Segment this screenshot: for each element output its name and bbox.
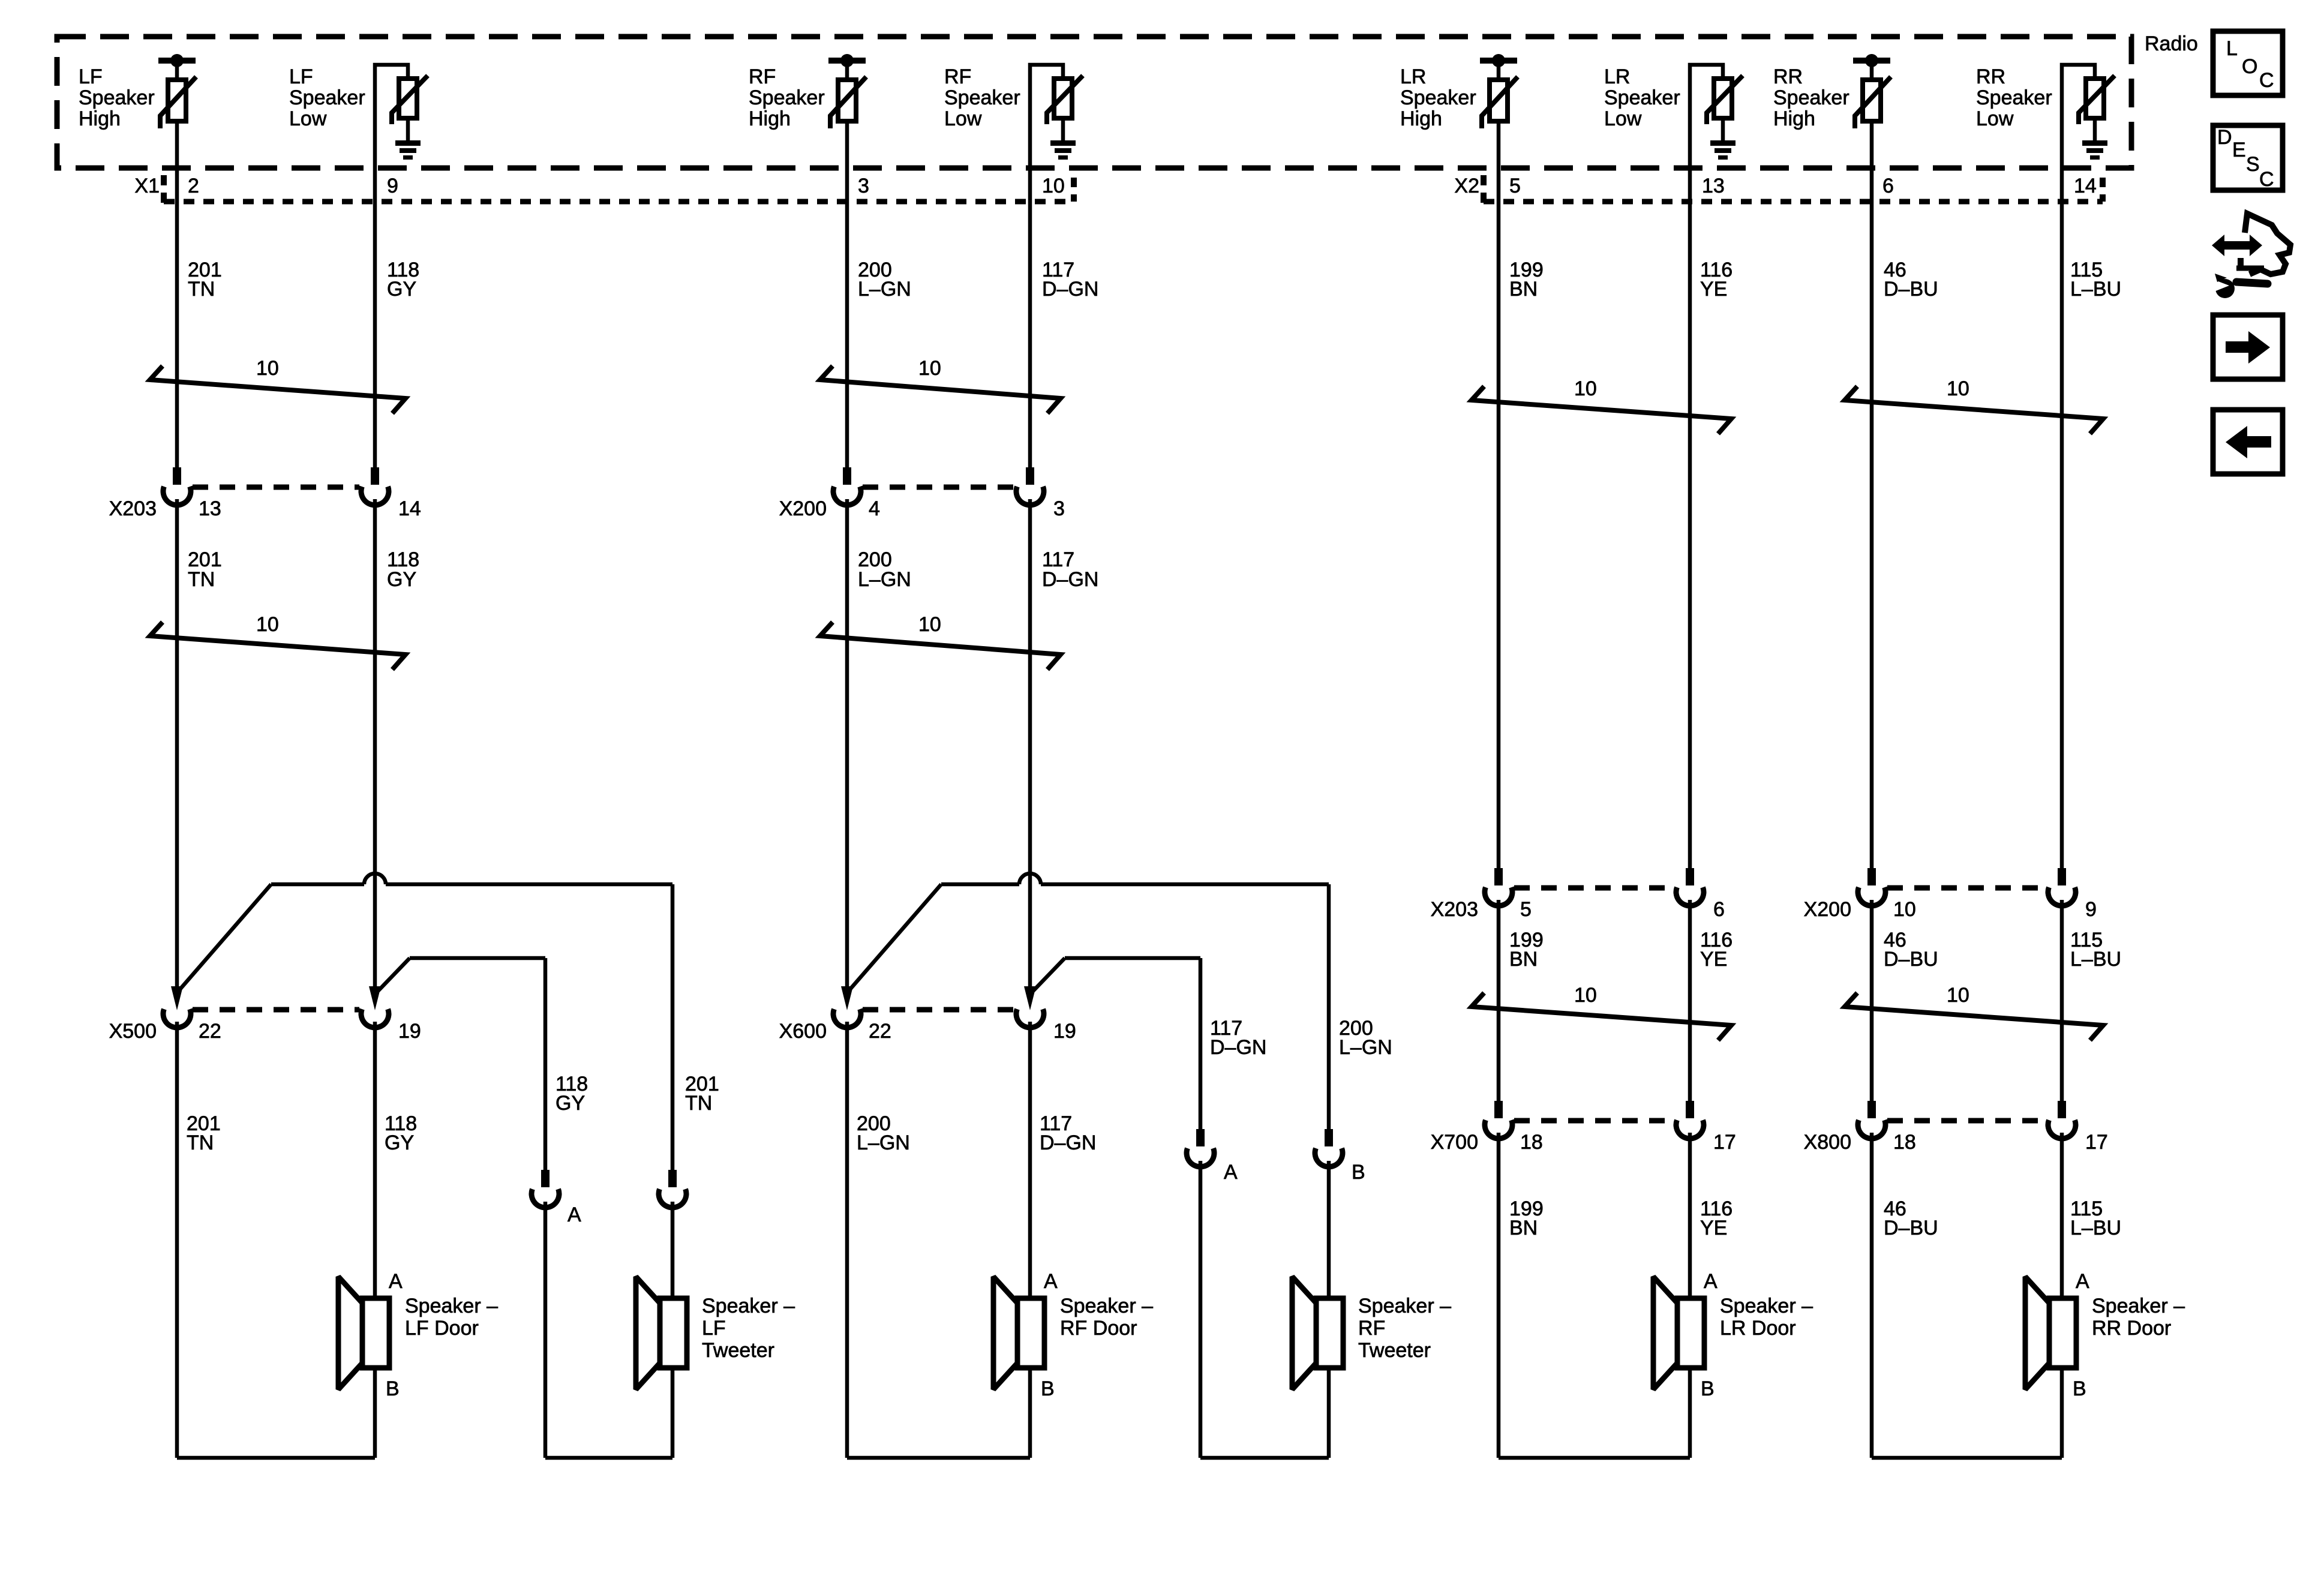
wire LR door B terminal to loop xyxy=(1688,1368,1692,1458)
svg-text:D: D xyxy=(2217,126,2232,149)
connector X1 right dotted stub xyxy=(1071,178,1077,202)
wire RF door B terminal to loop xyxy=(1028,1368,1032,1458)
svg-text:B: B xyxy=(1352,1161,1365,1184)
svg-text:X200: X200 xyxy=(779,497,827,520)
svg-text:6: 6 xyxy=(1882,175,1894,197)
wire RR low X200 to X800 xyxy=(2060,900,2064,1101)
wire LF tweeter return horizontal from X500 pin 19 xyxy=(410,956,545,960)
svg-text:Speaker –: Speaker – xyxy=(702,1295,795,1317)
svg-text:10: 10 xyxy=(256,357,279,380)
RF Speaker High label xyxy=(749,65,825,130)
RF tweeter splice terminal B (200 L-GN) xyxy=(1315,1129,1343,1167)
inline connector X203 pin 13 terminal (LF high) xyxy=(163,467,191,505)
wire RF tweeter bottom loop xyxy=(1200,1456,1329,1460)
svg-text:10: 10 xyxy=(1947,377,1969,400)
svg-text:Speaker: Speaker xyxy=(1400,86,1476,109)
connector X1 dotted stub xyxy=(161,175,167,203)
wire label 46 D&#8211;BU (RR high, radio side) xyxy=(1884,259,1938,301)
speaker RF Tweeter symbol xyxy=(1292,1277,1343,1389)
LF Speaker Low output symbol with ground inside Radio xyxy=(375,65,428,160)
wire 201 TN X500 to LF door speaker loop xyxy=(175,1022,179,1458)
svg-text:RF: RF xyxy=(944,65,971,88)
svg-text:Speaker: Speaker xyxy=(1604,86,1680,109)
svg-text:Speaker –: Speaker – xyxy=(1060,1295,1153,1317)
svg-text:14: 14 xyxy=(2074,175,2097,197)
wire 201 TN splice to LF tweeter xyxy=(671,1202,675,1298)
wire 116 from LR Speaker Low to X203 xyxy=(1688,68,1692,868)
gauge marker 10 (RR pair, upper) xyxy=(1845,377,2103,434)
inline connector X203 pin 5 terminal (LR high) xyxy=(1485,868,1512,906)
wire 118 GY splice to LF tweeter loop xyxy=(544,1202,548,1458)
svg-text:10: 10 xyxy=(918,613,941,636)
wire LR high X700 to door speaker loop xyxy=(1497,1133,1501,1458)
svg-text:6: 6 xyxy=(1713,898,1725,921)
RF Speaker Low label xyxy=(944,65,1020,130)
wire 118 GY from LF Speaker Low pin 9 to X203 xyxy=(373,68,377,467)
svg-text:X1: X1 xyxy=(134,175,160,197)
inline connector X600 pin 19 terminal with arrowhead xyxy=(1016,986,1044,1028)
wire RF tweeter B terminal to loop xyxy=(1327,1368,1331,1458)
svg-text:TN: TN xyxy=(187,1131,214,1154)
inline connector X203 pin 14 terminal (LF low) xyxy=(361,467,389,505)
svg-text:10: 10 xyxy=(1893,898,1916,921)
svg-text:LF: LF xyxy=(289,65,313,88)
svg-text:A: A xyxy=(568,1203,581,1226)
legend back arrow box xyxy=(2213,410,2283,474)
LF Speaker High output symbol (variable element) inside Radio xyxy=(158,54,196,128)
inline connector X500 pin 19 terminal with arrowhead xyxy=(361,986,389,1028)
LR Speaker High output symbol (variable element) inside Radio xyxy=(1480,54,1518,128)
gauge marker 10 (LR pair, lower) xyxy=(1472,984,1731,1040)
svg-text:A: A xyxy=(389,1270,403,1293)
gauge marker 10 (RF pair, lower) xyxy=(820,613,1061,670)
speaker RR Door symbol xyxy=(2025,1277,2076,1389)
speaker RF Door name label xyxy=(1060,1295,1153,1340)
svg-text:19: 19 xyxy=(1053,1020,1076,1043)
svg-text:Low: Low xyxy=(1976,107,2014,130)
wire RR low X800 to door speaker xyxy=(2060,1133,2064,1298)
svg-text:LR: LR xyxy=(1400,65,1426,88)
wire label 115 L&#8211;BU (RR low, radio side) xyxy=(2070,259,2121,301)
inline connector X200 pin 3 terminal (RF low) xyxy=(1016,467,1044,505)
svg-text:4: 4 xyxy=(869,497,880,520)
wire label 117 D-GN (RF low, mid) xyxy=(1042,548,1098,591)
legend forward arrow box xyxy=(2213,315,2283,379)
gauge marker 10 (LF pair, upper) xyxy=(150,357,406,413)
svg-text:A: A xyxy=(1704,1270,1718,1293)
LR Speaker High label xyxy=(1400,65,1476,130)
gauge marker 10 (LF pair, lower) xyxy=(150,613,406,670)
wire 117 D-GN X200 to X600 xyxy=(1028,499,1032,987)
svg-text:Speaker: Speaker xyxy=(79,86,155,109)
wire label 116 YE (LR low, radio side) xyxy=(1700,259,1733,301)
svg-text:X200: X200 xyxy=(1804,898,1851,921)
wire label 201 TN (LF high, radio side) xyxy=(188,259,222,301)
wire label 200 L-GN (RF tweeter branch) xyxy=(1339,1017,1392,1059)
wire 118 GY X203 to X500 xyxy=(373,499,377,987)
inline connector X203 pin 6 terminal (LR low) xyxy=(1676,868,1704,906)
wire diagonal into X600 pin 22 xyxy=(850,884,941,989)
wire 200 L-GN splice to RF tweeter xyxy=(1327,1161,1331,1298)
wire label 118 GY (LF low, mid) xyxy=(387,548,419,591)
legend LOC box xyxy=(2213,31,2283,95)
svg-text:GY: GY xyxy=(387,568,416,591)
speaker LR Door name label xyxy=(1720,1295,1813,1340)
speaker LF Door name label xyxy=(405,1295,498,1340)
legend DESC box xyxy=(2213,125,2283,191)
wire label 118 GY (LF door) xyxy=(385,1112,417,1154)
svg-text:L–BU: L–BU xyxy=(2070,278,2121,301)
svg-text:10: 10 xyxy=(256,613,279,636)
legend wrench and arrow icon xyxy=(2209,214,2290,298)
wire LR low X700 to door speaker xyxy=(1688,1133,1692,1298)
wire RR high X800 to door speaker loop xyxy=(1870,1133,1874,1458)
svg-text:RR: RR xyxy=(1773,65,1803,88)
svg-text:19: 19 xyxy=(398,1020,421,1043)
svg-text:LR: LR xyxy=(1604,65,1630,88)
speaker LF Door symbol xyxy=(338,1277,389,1389)
svg-text:YE: YE xyxy=(1700,1217,1727,1239)
svg-text:5: 5 xyxy=(1509,175,1521,197)
svg-text:RR: RR xyxy=(1976,65,2005,88)
svg-text:Low: Low xyxy=(944,107,982,130)
gauge marker 10 (RR pair, lower) xyxy=(1845,984,2103,1040)
wire RF tweeter return horizontal from X600 pin 19 xyxy=(1065,956,1200,960)
svg-text:D–GN: D–GN xyxy=(1040,1131,1096,1154)
wire label 46 D&#8211;BU (RR high, mid) xyxy=(1884,929,1938,971)
connector X2 dotted stub xyxy=(1481,175,1487,203)
svg-text:D–BU: D–BU xyxy=(1884,278,1938,301)
wire RR door B terminal to loop xyxy=(2060,1368,2064,1458)
inline connector X200 pin 4 terminal (RF high) xyxy=(833,467,861,505)
wire 46 from RR Speaker High to X200 xyxy=(1870,121,1874,868)
inline connector X203 dashes xyxy=(193,485,359,490)
wire label 118 GY (LF tweeter branch) xyxy=(556,1073,588,1115)
LR Speaker Low output symbol with ground inside Radio xyxy=(1690,65,1743,160)
svg-text:BN: BN xyxy=(1509,1217,1538,1239)
wire label 46 D&#8211;BU (RR door) xyxy=(1884,1197,1938,1239)
RR Speaker Low label xyxy=(1976,65,2052,130)
svg-text:Speaker –: Speaker – xyxy=(1720,1295,1813,1317)
inline connector X800 pin 18 terminal (RR high) xyxy=(1858,1101,1885,1139)
svg-text:GY: GY xyxy=(385,1131,414,1154)
svg-text:S: S xyxy=(2246,153,2260,176)
wire label 201 TN (LF door) xyxy=(187,1112,221,1154)
svg-text:18: 18 xyxy=(1520,1131,1543,1154)
svg-text:X203: X203 xyxy=(109,497,157,520)
svg-text:Speaker –: Speaker – xyxy=(1358,1295,1451,1317)
svg-text:X800: X800 xyxy=(1804,1131,1851,1154)
wire 201 TN from LF Speaker High pin 2 to X203 xyxy=(175,121,179,467)
wire 201 TN X203 to X500 xyxy=(175,499,179,987)
wire label 200 L-GN (RF high, mid) xyxy=(858,548,911,591)
wire 117 D-GN branch down to RF tweeter splice xyxy=(1199,958,1203,1129)
connector X2 dotted line xyxy=(1484,199,2103,205)
svg-text:L–GN: L–GN xyxy=(857,1131,910,1154)
wire label 199 BN (LR high, radio side) xyxy=(1509,259,1544,301)
svg-text:YE: YE xyxy=(1700,948,1727,971)
svg-text:TN: TN xyxy=(188,278,215,301)
wire 117 D-GN splice to RF tweeter loop xyxy=(1199,1161,1203,1458)
wire LF tweeter bottom loop xyxy=(545,1456,672,1460)
svg-text:3: 3 xyxy=(1053,497,1065,520)
wire label 117 D-GN (RF door) xyxy=(1040,1112,1096,1154)
wire label 116 YE (LR door) xyxy=(1700,1197,1733,1239)
svg-text:17: 17 xyxy=(1713,1131,1736,1154)
wire 115 from RR Speaker Low to X200 xyxy=(2060,68,2064,868)
LF tweeter splice terminal (201 TN) xyxy=(659,1170,686,1208)
wire 118 GY X500 to LF door speaker xyxy=(373,1022,377,1298)
svg-text:Speaker –: Speaker – xyxy=(405,1295,498,1317)
inline connector X200 dashes (RR) xyxy=(1887,885,2046,891)
svg-text:10: 10 xyxy=(1574,377,1597,400)
svg-text:14: 14 xyxy=(398,497,421,520)
svg-text:L–BU: L–BU xyxy=(2070,948,2121,971)
svg-text:GY: GY xyxy=(387,278,416,301)
wire RF door bottom loop xyxy=(847,1456,1030,1460)
connector X2 right dotted stub xyxy=(2100,178,2106,202)
wire 200 L-GN branch down to RF tweeter splice xyxy=(1327,884,1331,1129)
svg-text:GY: GY xyxy=(556,1092,585,1115)
svg-text:Speaker: Speaker xyxy=(1976,86,2052,109)
wire label 201 TN (LF high, mid) xyxy=(188,548,222,591)
svg-text:L: L xyxy=(2226,37,2238,60)
inline connector X700 pin 18 terminal (LR high) xyxy=(1485,1101,1512,1139)
svg-text:Low: Low xyxy=(1604,107,1642,130)
LF Speaker High label xyxy=(79,65,155,130)
svg-text:LF Door: LF Door xyxy=(405,1317,479,1340)
inline connector X600 dashes xyxy=(863,1007,1014,1013)
svg-text:L–GN: L–GN xyxy=(858,568,911,591)
svg-text:RR Door: RR Door xyxy=(2092,1317,2171,1340)
inline connector X200 pin 9 terminal (RR low) xyxy=(2048,868,2076,906)
svg-text:High: High xyxy=(1400,107,1442,130)
svg-text:RF Door: RF Door xyxy=(1060,1317,1137,1340)
inline connector X800 pin 17 terminal (RR low) xyxy=(2048,1101,2076,1139)
wire label 199 BN (LR high, mid) xyxy=(1509,929,1544,971)
svg-text:High: High xyxy=(79,107,121,130)
wire label 117 D-GN (RF tweeter branch) xyxy=(1210,1017,1266,1059)
wire LF door bottom loop xyxy=(177,1456,375,1460)
wire LF tweeter B terminal to loop xyxy=(671,1368,675,1458)
inline connector X600 pin 22 terminal with arrowhead xyxy=(833,986,861,1028)
gauge marker 10 (LR pair, upper) xyxy=(1472,377,1731,434)
svg-text:10: 10 xyxy=(1947,984,1969,1007)
svg-text:3: 3 xyxy=(858,175,869,197)
RR Speaker Low output symbol with ground inside Radio xyxy=(2062,65,2115,160)
speaker LF Tweeter symbol xyxy=(636,1277,687,1389)
svg-text:9: 9 xyxy=(387,175,398,197)
inline connector X700 dashes xyxy=(1514,1118,1674,1124)
wire diagonal into X600 pin 19 xyxy=(1033,958,1065,991)
wire RR high X200 to X800 xyxy=(1870,900,1874,1101)
speaker RF Tweeter name label xyxy=(1358,1295,1451,1362)
wire label 200 L-GN (RF high, radio side) xyxy=(858,259,911,301)
wire LR low X203 to X700 xyxy=(1688,900,1692,1101)
svg-text:A: A xyxy=(2076,1270,2089,1293)
svg-text:LF: LF xyxy=(79,65,103,88)
wire label 118 GY (LF low, radio side) xyxy=(387,259,419,301)
svg-text:22: 22 xyxy=(199,1020,221,1043)
svg-text:LF: LF xyxy=(702,1317,726,1340)
svg-text:18: 18 xyxy=(1893,1131,1916,1154)
LF Speaker Low label xyxy=(289,65,365,130)
RF tweeter splice terminal A (117 D-GN) xyxy=(1187,1129,1214,1167)
svg-text:BN: BN xyxy=(1509,278,1538,301)
LR Speaker Low label xyxy=(1604,65,1680,130)
svg-text:D–GN: D–GN xyxy=(1042,568,1098,591)
svg-text:10: 10 xyxy=(1574,984,1597,1007)
wire 117 D-GN X600 to RF door speaker xyxy=(1028,1022,1032,1298)
svg-text:Tweeter: Tweeter xyxy=(702,1339,774,1362)
wire label 115 L&#8211;BU (RR door) xyxy=(2070,1197,2121,1239)
inline connector X500 dashes xyxy=(193,1007,359,1013)
speaker RF Door symbol xyxy=(993,1277,1044,1389)
svg-text:17: 17 xyxy=(2085,1131,2108,1154)
svg-text:X500: X500 xyxy=(109,1020,157,1043)
wire RF tweeter feed horizontal from X600 pin 22 xyxy=(941,873,1329,884)
svg-text:Speaker: Speaker xyxy=(944,86,1020,109)
RR Speaker High label xyxy=(1773,65,1849,130)
svg-text:X700: X700 xyxy=(1431,1131,1478,1154)
svg-text:Radio: Radio xyxy=(2145,32,2198,55)
svg-text:L–GN: L–GN xyxy=(858,278,911,301)
svg-text:Tweeter: Tweeter xyxy=(1358,1339,1431,1362)
svg-text:D–GN: D–GN xyxy=(1210,1036,1266,1059)
wire 118 GY branch down to LF tweeter splice xyxy=(544,958,548,1170)
svg-text:B: B xyxy=(1701,1377,1715,1400)
inline connector X203 dashes (LR) xyxy=(1514,885,1674,891)
wire diagonal into X500 pin 22 xyxy=(180,884,271,989)
RF Speaker Low output symbol with ground inside Radio xyxy=(1030,65,1083,160)
svg-text:LR Door: LR Door xyxy=(1720,1317,1796,1340)
svg-text:A: A xyxy=(1044,1270,1058,1293)
wire RR door bottom loop xyxy=(1872,1456,2062,1460)
wire LR high X203 to X700 xyxy=(1497,900,1501,1101)
svg-text:O: O xyxy=(2242,55,2257,78)
wire LF door B terminal to loop xyxy=(373,1368,377,1458)
svg-text:D–BU: D–BU xyxy=(1884,948,1938,971)
svg-text:Speaker: Speaker xyxy=(1773,86,1849,109)
inline connector X800 dashes xyxy=(1887,1118,2046,1124)
svg-text:Speaker: Speaker xyxy=(749,86,825,109)
wire label 201 TN (LF tweeter branch) xyxy=(685,1073,719,1115)
inline connector X700 pin 17 terminal (LR low) xyxy=(1676,1101,1704,1139)
wire label 117 D-GN (RF low, radio side) xyxy=(1042,259,1098,301)
svg-text:5: 5 xyxy=(1520,898,1532,921)
svg-text:D–GN: D–GN xyxy=(1042,278,1098,301)
svg-text:C: C xyxy=(2259,69,2274,92)
wire LF tweeter feed horizontal from X500 pin 22 xyxy=(271,873,672,884)
Radio module dashed outline box xyxy=(57,37,2131,168)
svg-text:Speaker –: Speaker – xyxy=(2092,1295,2185,1317)
svg-text:High: High xyxy=(749,107,791,130)
svg-text:B: B xyxy=(386,1377,400,1400)
svg-text:TN: TN xyxy=(188,568,215,591)
LF tweeter splice terminal A (118 GY) xyxy=(532,1170,559,1208)
svg-text:9: 9 xyxy=(2085,898,2097,921)
wire 117 D-GN from RF Speaker Low pin 10 to X200 xyxy=(1028,68,1032,467)
svg-text:13: 13 xyxy=(199,497,221,520)
svg-text:B: B xyxy=(1041,1377,1055,1400)
speaker LF Tweeter name label xyxy=(702,1295,795,1362)
svg-text:10: 10 xyxy=(1042,175,1065,197)
svg-text:2: 2 xyxy=(188,175,199,197)
inline connector X200 pin 10 terminal (RR high) xyxy=(1858,868,1885,906)
svg-text:L–BU: L–BU xyxy=(2070,1217,2121,1239)
speaker LR Door symbol xyxy=(1653,1277,1704,1389)
svg-text:D–BU: D–BU xyxy=(1884,1217,1938,1239)
svg-text:13: 13 xyxy=(1702,175,1725,197)
svg-text:Speaker: Speaker xyxy=(289,86,365,109)
svg-text:E: E xyxy=(2232,139,2246,161)
svg-text:X2: X2 xyxy=(1454,175,1479,197)
RR Speaker High output symbol (variable element) inside Radio xyxy=(1853,54,1891,128)
inline connector X500 pin 22 terminal with arrowhead xyxy=(163,986,191,1028)
wire label 199 BN (LR door) xyxy=(1509,1197,1544,1239)
svg-text:High: High xyxy=(1773,107,1815,130)
svg-text:Low: Low xyxy=(289,107,327,130)
svg-text:L–GN: L–GN xyxy=(1339,1036,1392,1059)
wire 199 from LR Speaker High to X203 xyxy=(1497,121,1501,868)
svg-text:BN: BN xyxy=(1509,948,1538,971)
svg-text:22: 22 xyxy=(869,1020,891,1043)
svg-text:10: 10 xyxy=(918,357,941,380)
speaker RR Door name label xyxy=(2092,1295,2185,1340)
connector X1 dotted line xyxy=(164,199,1074,205)
wire label 200 L-GN (RF door) xyxy=(857,1112,910,1154)
wire 200 L-GN from RF Speaker High pin 3 to X200 xyxy=(845,121,849,467)
wire 200 L-GN X600 to RF door speaker loop xyxy=(845,1022,849,1458)
svg-text:RF: RF xyxy=(1358,1317,1385,1340)
RF Speaker High output symbol (variable element) inside Radio xyxy=(828,54,866,128)
wire label 116 YE (LR low, mid) xyxy=(1700,929,1733,971)
svg-text:RF: RF xyxy=(749,65,776,88)
svg-text:X600: X600 xyxy=(779,1020,827,1043)
wire 200 L-GN X200 to X600 xyxy=(845,499,849,987)
svg-text:A: A xyxy=(1224,1161,1238,1184)
wire diagonal into X500 pin 19 xyxy=(378,958,410,991)
wire label 115 L&#8211;BU (RR low, mid) xyxy=(2070,929,2121,971)
wire LR door bottom loop xyxy=(1499,1456,1690,1460)
svg-text:TN: TN xyxy=(685,1092,712,1115)
wire 201 TN branch down to LF tweeter splice xyxy=(671,884,675,1170)
svg-text:X203: X203 xyxy=(1431,898,1478,921)
svg-text:YE: YE xyxy=(1700,278,1727,301)
gauge marker 10 (RF pair, upper) xyxy=(820,357,1061,413)
svg-text:C: C xyxy=(2259,168,2274,191)
inline connector X200 dashes xyxy=(863,485,1014,490)
svg-text:B: B xyxy=(2073,1377,2086,1400)
